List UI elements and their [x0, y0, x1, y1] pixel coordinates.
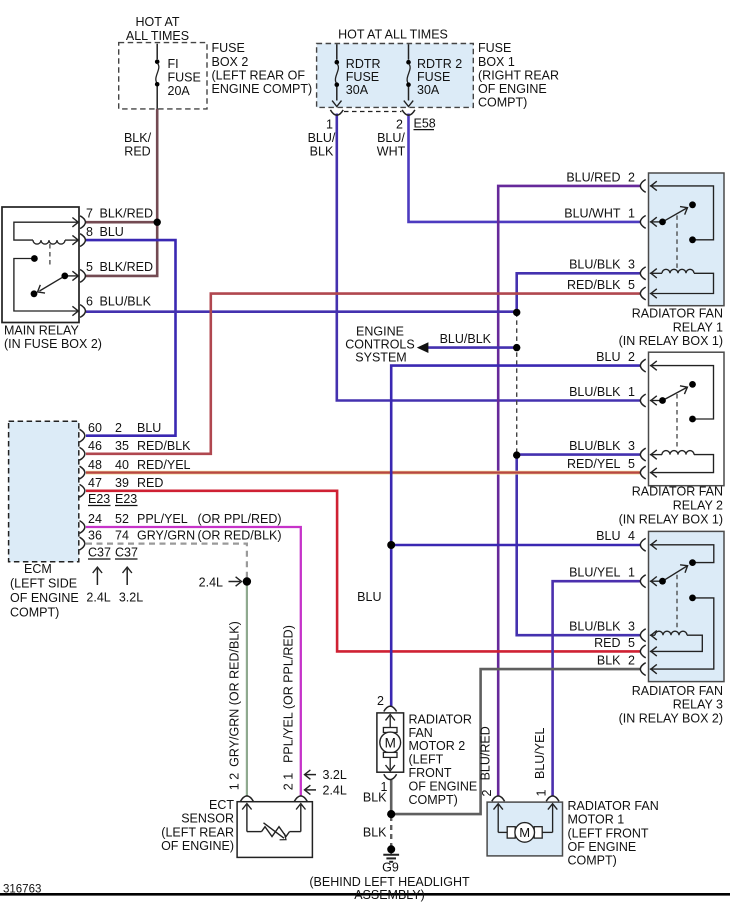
svg-text:COMPT): COMPT) [10, 606, 59, 620]
svg-text:ECM: ECM [24, 562, 52, 576]
svg-text:WHT: WHT [377, 145, 406, 159]
svg-text:35: 35 [115, 439, 129, 453]
svg-text:3.2L: 3.2L [119, 591, 143, 605]
svg-text:48: 48 [88, 458, 102, 472]
svg-text:(IN FUSE BOX 2): (IN FUSE BOX 2) [4, 337, 102, 351]
svg-text:5: 5 [86, 260, 93, 274]
svg-text:2: 2 [377, 694, 384, 708]
svg-text:FUSE: FUSE [478, 41, 511, 55]
svg-text:E58: E58 [414, 117, 436, 131]
svg-text:3: 3 [628, 620, 635, 634]
svg-text:MOTOR 2: MOTOR 2 [409, 739, 466, 753]
svg-text:46: 46 [88, 439, 102, 453]
svg-text:1: 1 [535, 789, 549, 796]
svg-text:HOT AT ALL TIMES: HOT AT ALL TIMES [338, 28, 448, 42]
svg-text:M: M [519, 825, 530, 840]
svg-text:1 2: 1 2 [228, 773, 242, 790]
svg-text:(IN RELAY BOX 1): (IN RELAY BOX 1) [619, 334, 723, 348]
svg-text:SYSTEM: SYSTEM [355, 351, 406, 365]
svg-text:RDTR: RDTR [346, 57, 381, 71]
svg-text:CONTROLS: CONTROLS [345, 338, 414, 352]
svg-text:2: 2 [396, 118, 403, 132]
svg-text:OF ENGINE: OF ENGINE [568, 840, 637, 854]
svg-text:FI: FI [168, 57, 179, 71]
svg-text:COMPT): COMPT) [478, 96, 527, 110]
svg-text:BLU/BLK: BLU/BLK [100, 295, 152, 309]
svg-text:60: 60 [88, 421, 102, 435]
svg-text:30A: 30A [417, 83, 440, 97]
svg-text:E23: E23 [88, 492, 110, 506]
svg-text:(RIGHT REAR: (RIGHT REAR [478, 68, 559, 82]
svg-text:BLU/RED: BLU/RED [478, 726, 492, 780]
svg-text:2.4L: 2.4L [86, 591, 110, 605]
svg-text:2 1: 2 1 [281, 773, 295, 790]
svg-text:74: 74 [115, 529, 129, 543]
svg-text:2: 2 [628, 654, 635, 668]
svg-text:RADIATOR: RADIATOR [409, 712, 472, 726]
svg-text:FUSE: FUSE [212, 41, 245, 55]
svg-text:BLK: BLK [363, 826, 387, 840]
svg-text:RADIATOR FAN: RADIATOR FAN [568, 799, 659, 813]
svg-text:6: 6 [86, 295, 93, 309]
svg-text:2.4L: 2.4L [199, 576, 223, 590]
svg-text:RELAY 3: RELAY 3 [673, 698, 723, 712]
svg-text:RED: RED [124, 145, 150, 159]
svg-text:BLU/BLK: BLU/BLK [569, 385, 621, 399]
svg-text:RED/BLK: RED/BLK [567, 278, 621, 292]
svg-text:RADIATOR FAN: RADIATOR FAN [632, 307, 723, 321]
svg-text:BLU/BLK: BLU/BLK [569, 620, 621, 634]
svg-text:BLK: BLK [363, 791, 387, 805]
svg-text:2: 2 [628, 170, 635, 184]
svg-text:RED/BLK: RED/BLK [137, 439, 191, 453]
svg-text:BLK/RED: BLK/RED [100, 260, 154, 274]
svg-text:MAIN RELAY: MAIN RELAY [4, 324, 79, 338]
svg-text:MOTOR 1: MOTOR 1 [568, 813, 625, 827]
svg-text:2.4L: 2.4L [323, 783, 347, 797]
svg-text:BLK/: BLK/ [124, 131, 152, 145]
svg-text:(IN RELAY BOX 1): (IN RELAY BOX 1) [619, 512, 723, 526]
svg-text:20A: 20A [168, 84, 191, 98]
svg-text:RADIATOR FAN: RADIATOR FAN [632, 684, 723, 698]
svg-text:8: 8 [86, 225, 93, 239]
svg-text:BLU/RED: BLU/RED [566, 170, 620, 184]
svg-text:36: 36 [88, 529, 102, 543]
svg-text:RED: RED [137, 476, 163, 490]
svg-text:COMPT): COMPT) [409, 793, 458, 807]
svg-text:2: 2 [115, 421, 122, 435]
svg-text:316763: 316763 [3, 884, 41, 896]
svg-text:OF ENGINE): OF ENGINE) [161, 839, 234, 853]
svg-text:RDTR 2: RDTR 2 [417, 57, 462, 71]
svg-text:E23: E23 [115, 492, 137, 506]
svg-text:BLU/YEL: BLU/YEL [533, 728, 547, 779]
svg-text:GRY/GRN: GRY/GRN [137, 529, 195, 543]
svg-text:1: 1 [628, 566, 635, 580]
svg-text:(LEFT FRONT: (LEFT FRONT [568, 826, 649, 840]
svg-text:5: 5 [628, 636, 635, 650]
svg-text:BLU: BLU [137, 421, 161, 435]
svg-text:5: 5 [628, 278, 635, 292]
svg-text:M: M [385, 735, 396, 750]
svg-text:3.2L: 3.2L [323, 768, 347, 782]
svg-text:(OR PPL/RED): (OR PPL/RED) [198, 512, 282, 526]
svg-text:BLU/: BLU/ [377, 131, 405, 145]
svg-text:FUSE: FUSE [417, 70, 450, 84]
svg-text:C37: C37 [88, 546, 111, 560]
svg-text:G9: G9 [382, 861, 399, 875]
svg-text:ASSEMBLY): ASSEMBLY) [354, 888, 425, 902]
svg-text:BLK/RED: BLK/RED [100, 207, 154, 221]
svg-text:ENGINE COMPT): ENGINE COMPT) [212, 82, 313, 96]
svg-text:BOX 1: BOX 1 [478, 55, 515, 69]
svg-text:(LEFT: (LEFT [409, 753, 444, 767]
svg-text:BLU/: BLU/ [308, 131, 336, 145]
svg-text:ALL TIMES: ALL TIMES [126, 29, 189, 43]
svg-text:30A: 30A [346, 83, 369, 97]
svg-text:RED/YEL: RED/YEL [137, 458, 191, 472]
svg-text:PPL/YEL (OR PPL/RED): PPL/YEL (OR PPL/RED) [281, 625, 295, 763]
svg-text:3: 3 [628, 258, 635, 272]
svg-text:(BEHIND LEFT HEADLIGHT: (BEHIND LEFT HEADLIGHT [309, 875, 470, 889]
svg-text:BLU/BLK: BLU/BLK [440, 332, 492, 346]
svg-text:47: 47 [88, 476, 102, 490]
svg-text:(OR RED/BLK): (OR RED/BLK) [198, 529, 282, 543]
svg-text:5: 5 [628, 457, 635, 471]
svg-text:OF ENGINE: OF ENGINE [409, 779, 478, 793]
svg-text:52: 52 [115, 512, 129, 526]
svg-text:BLU/BLK: BLU/BLK [569, 439, 621, 453]
svg-text:BLU: BLU [596, 529, 620, 543]
svg-text:C37: C37 [115, 546, 138, 560]
svg-text:2: 2 [628, 350, 635, 364]
svg-text:1: 1 [628, 385, 635, 399]
svg-text:COMPT): COMPT) [568, 854, 617, 868]
svg-text:RED/YEL: RED/YEL [567, 457, 621, 471]
svg-text:RELAY 1: RELAY 1 [673, 320, 723, 334]
svg-text:BLU/WHT: BLU/WHT [564, 206, 621, 220]
svg-text:4: 4 [628, 529, 635, 543]
svg-text:ECT: ECT [209, 798, 234, 812]
svg-text:BOX 2: BOX 2 [212, 55, 249, 69]
svg-text:FRONT: FRONT [409, 766, 452, 780]
svg-text:1: 1 [628, 206, 635, 220]
svg-text:24: 24 [88, 512, 102, 526]
svg-text:BLU/YEL: BLU/YEL [569, 566, 620, 580]
svg-text:39: 39 [115, 476, 129, 490]
svg-text:(LEFT SIDE: (LEFT SIDE [10, 577, 77, 591]
svg-text:7: 7 [86, 207, 93, 221]
svg-text:FUSE: FUSE [346, 70, 379, 84]
svg-text:(LEFT REAR: (LEFT REAR [161, 825, 234, 839]
svg-text:OF ENGINE: OF ENGINE [10, 591, 79, 605]
svg-text:1: 1 [326, 118, 333, 132]
svg-text:(LEFT REAR OF: (LEFT REAR OF [212, 68, 306, 82]
svg-text:FAN: FAN [409, 726, 433, 740]
svg-text:(IN RELAY BOX 2): (IN RELAY BOX 2) [619, 712, 723, 726]
svg-text:RED: RED [594, 636, 620, 650]
svg-text:BLK: BLK [310, 145, 334, 159]
svg-text:SENSOR: SENSOR [181, 812, 234, 826]
svg-text:3: 3 [628, 439, 635, 453]
svg-text:40: 40 [115, 458, 129, 472]
svg-text:PPL/YEL: PPL/YEL [137, 512, 188, 526]
svg-text:BLU: BLU [100, 225, 124, 239]
svg-text:FUSE: FUSE [168, 71, 201, 85]
svg-text:GRY/GRN (OR RED/BLK): GRY/GRN (OR RED/BLK) [228, 621, 242, 767]
svg-text:HOT AT: HOT AT [136, 15, 180, 29]
svg-text:BLU: BLU [357, 590, 381, 604]
svg-text:2: 2 [480, 789, 494, 796]
svg-text:BLU/BLK: BLU/BLK [569, 258, 621, 272]
svg-text:RADIATOR FAN: RADIATOR FAN [632, 485, 723, 499]
svg-text:BLK: BLK [597, 654, 621, 668]
svg-text:RELAY 2: RELAY 2 [673, 499, 723, 513]
svg-text:OF ENGINE: OF ENGINE [478, 82, 547, 96]
svg-text:ENGINE: ENGINE [356, 325, 404, 339]
svg-text:BLU: BLU [596, 350, 620, 364]
